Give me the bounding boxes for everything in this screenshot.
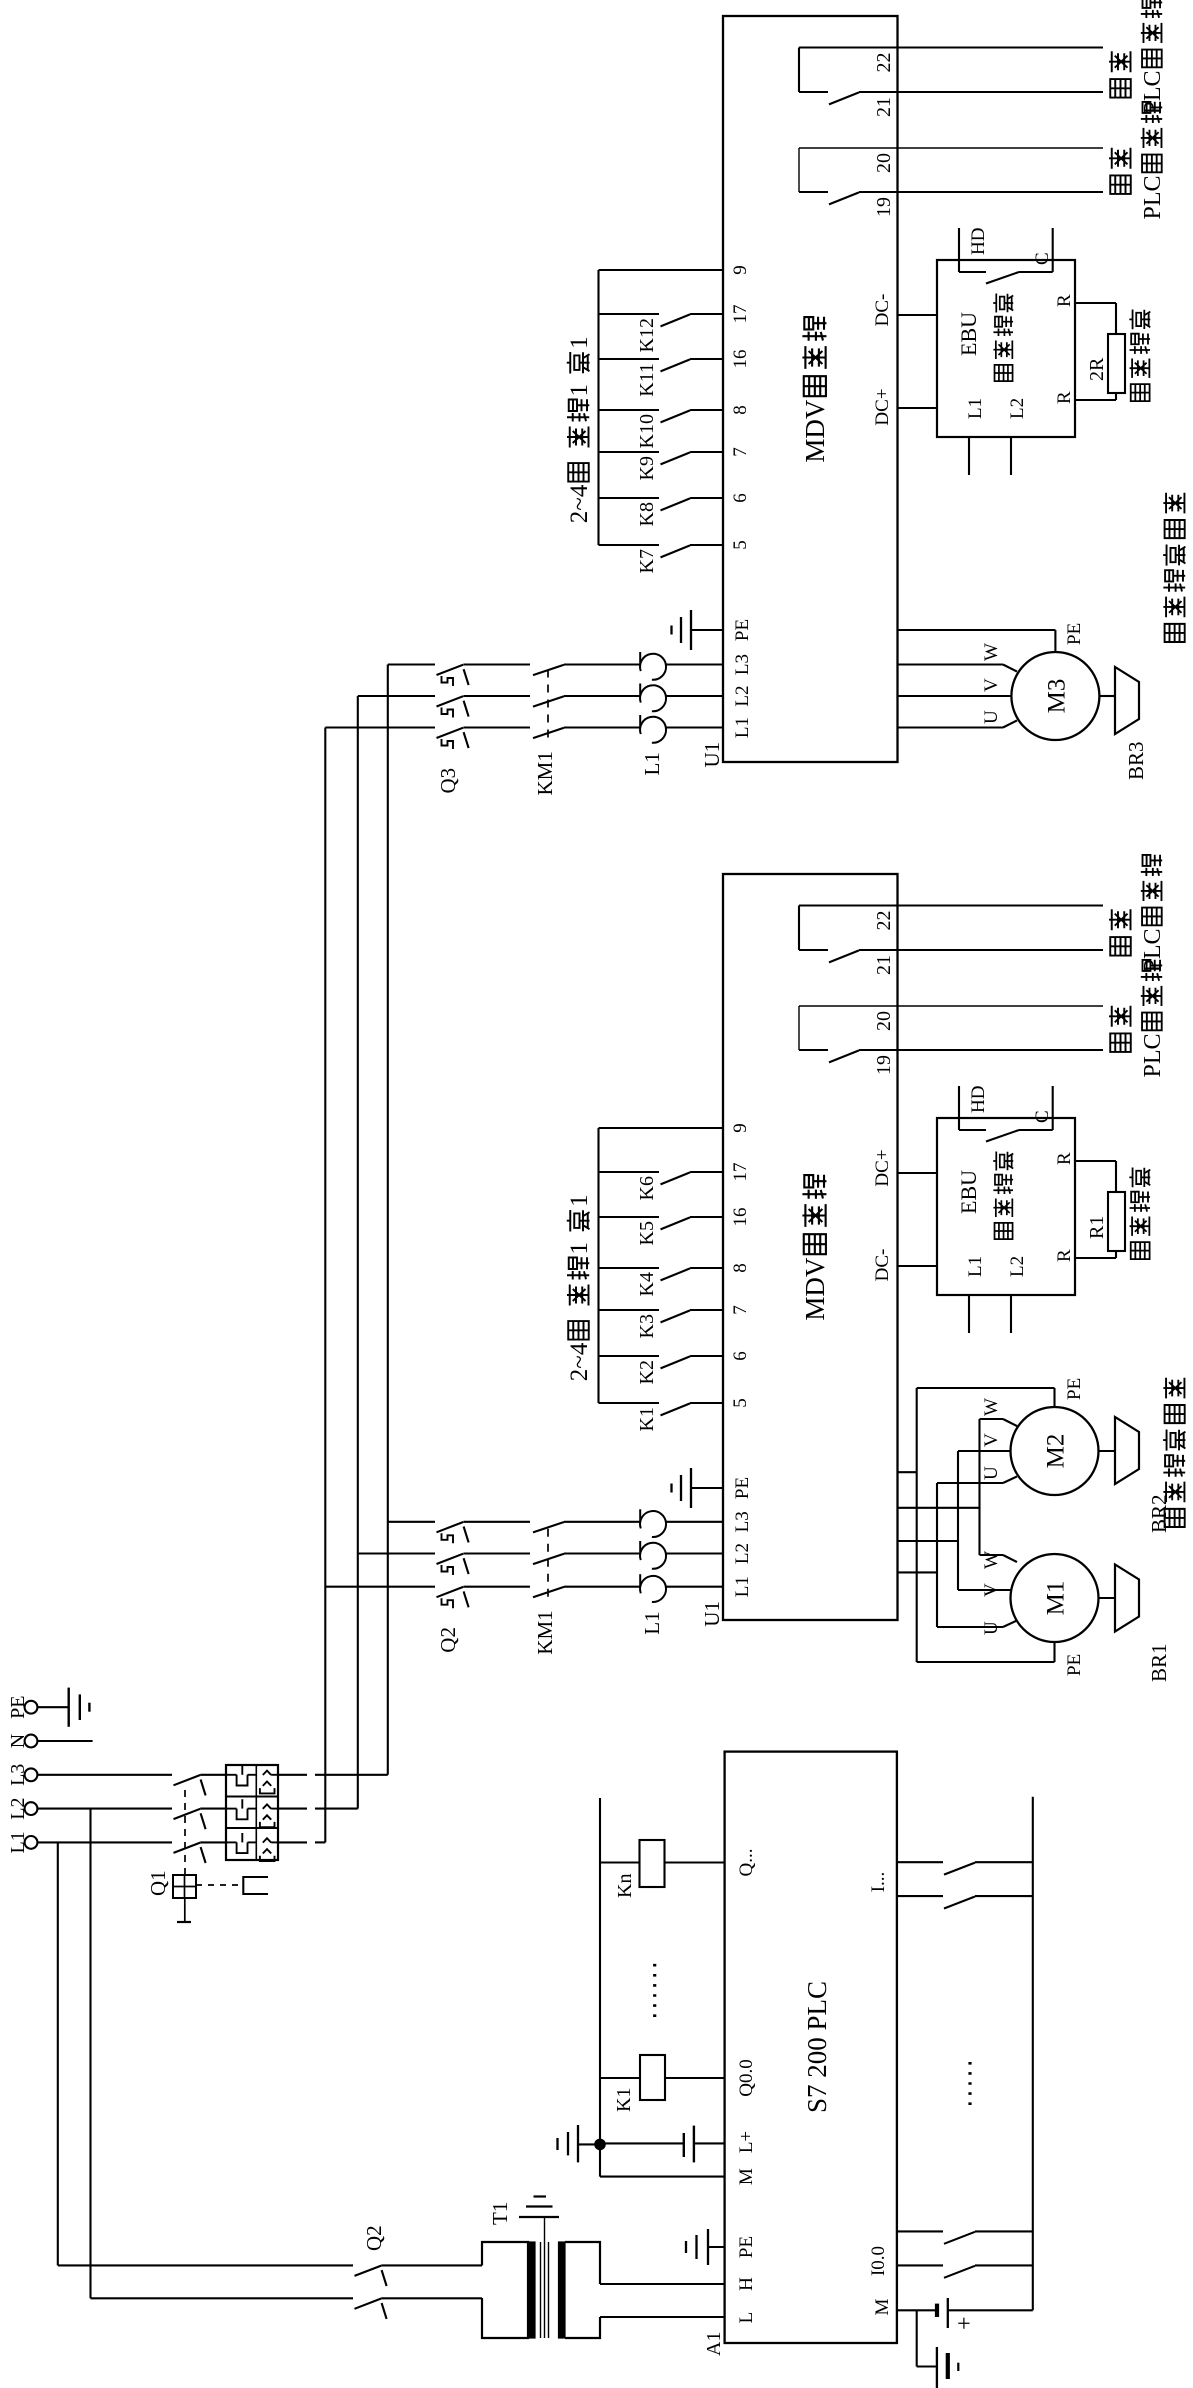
- svg-text:Q0.0: Q0.0: [736, 2059, 757, 2096]
- contactor KM1 linkage dashed 1626: [547, 670, 549, 738]
- wire L3 drop to Q1: [38, 1774, 173, 1776]
- transformer T1 primary winding: [482, 2242, 528, 2338]
- svg-text:V: V: [981, 1433, 1002, 1447]
- svg-text:5: 5: [730, 540, 751, 550]
- wire L2 control feeder to Q2: [89, 1809, 91, 2299]
- svg-text:PE: PE: [732, 1477, 753, 1499]
- wire L3 from Q1 to bus: [278, 1774, 307, 1776]
- svg-text:L: L: [736, 2312, 757, 2324]
- label fault PLC input point: [1110, 175, 1131, 194]
- svg-text:L1: L1: [640, 752, 664, 775]
- svg-text:L3: L3: [7, 1764, 29, 1786]
- svg-text:L1: L1: [7, 1831, 29, 1853]
- wire terminal 20: [799, 147, 1103, 149]
- breaker Q1 pole L3: [174, 1775, 201, 1785]
- EBU C terminal: [1052, 228, 1054, 272]
- EBU C terminal: [1052, 1086, 1054, 1130]
- svg-text:1: 1: [566, 384, 593, 397]
- contactor KM1 pole L2 at x=834: [533, 1554, 564, 1564]
- EBU braking unit box 768: [937, 1118, 1075, 1295]
- breaker Q2 pole L1 at x=801: [437, 1587, 464, 1597]
- contactor KM1 pole L1 at x=1660: [533, 728, 564, 738]
- svg-text:U: U: [981, 710, 1002, 724]
- breaker Q1 trip linkage dashed: [184, 1784, 186, 1875]
- svg-text:U: U: [981, 1466, 1002, 1480]
- svg-text:7: 7: [730, 447, 751, 457]
- breaker Q2 control pole B: [355, 2299, 382, 2309]
- svg-text:L2: L2: [1007, 1256, 1028, 1277]
- svg-text:S7 200 PLC: S7 200 PLC: [802, 1981, 832, 2113]
- svg-text:I...: I...: [868, 1872, 889, 1893]
- contact K8 terminal 6: [599, 497, 660, 499]
- node N mains terminal: [25, 1735, 38, 1748]
- label fault PLC input point: [1110, 1033, 1131, 1052]
- svg-text:PE: PE: [732, 619, 753, 641]
- ground at coil rail junction: [578, 2143, 600, 2145]
- wire terminal 19 with contact: [799, 191, 828, 193]
- brake BR1: [1115, 1565, 1139, 1632]
- inverter box MDV at x=768: [723, 874, 898, 1620]
- svg-text:A1: A1: [703, 2332, 725, 2356]
- svg-text:M1: M1: [1043, 1581, 1070, 1616]
- inverter relay 21-22 link: [798, 48, 800, 93]
- reactor L1 phase L3 at x=866: [640, 1511, 666, 1537]
- inverter relay 21-22 link: [798, 906, 800, 951]
- label brake PLC input point: [1110, 937, 1131, 956]
- wire L1 drop into inverter 768: [325, 1586, 435, 1588]
- Q1 magnetic element phase at x=579: [263, 1804, 271, 1808]
- svg-text:M3: M3: [1043, 679, 1070, 714]
- svg-text:K7: K7: [636, 549, 658, 573]
- EBU L2 stub: [1010, 1295, 1012, 1333]
- wire L1 control feeder to Q2: [57, 1842, 59, 2265]
- ground PLC PE earth: [707, 2229, 709, 2265]
- svg-text:PE: PE: [1064, 1378, 1085, 1400]
- svg-text:PE: PE: [736, 2236, 757, 2258]
- wire V to M2: [958, 1450, 1011, 1452]
- svg-text:T1: T1: [488, 2202, 512, 2225]
- svg-text:DC+: DC+: [872, 388, 893, 425]
- wire PLC L+ with capacitor: [695, 2142, 725, 2144]
- contact K10 terminal 8: [599, 409, 660, 411]
- svg-text:R: R: [1054, 1249, 1075, 1262]
- inverter relay 19-20 link: [798, 148, 800, 192]
- reactor L1 phase L1 at x=1660: [640, 717, 666, 743]
- wire M2 to BR2: [1099, 1450, 1116, 1452]
- wire L2 drop into inverter 768: [358, 1552, 435, 1554]
- wire M3 to BR3: [1099, 695, 1115, 697]
- svg-text:2~4: 2~4: [566, 484, 593, 523]
- contactor KM1 pole L1 at x=801: [533, 1587, 564, 1597]
- svg-text:Q2: Q2: [362, 2225, 386, 2251]
- wire DC- to EBU: [898, 1265, 938, 1267]
- svg-text:R: R: [1054, 391, 1075, 404]
- svg-text:1: 1: [566, 336, 593, 349]
- svg-text:W: W: [981, 1551, 1002, 1569]
- svg-text:MDV: MDV: [800, 399, 830, 463]
- contact K7 terminal 5: [599, 544, 660, 546]
- wire U to M1: [937, 1626, 1003, 1628]
- Q1 magnetic element phase at x=613: [263, 1771, 271, 1775]
- svg-text:U1: U1: [700, 1601, 724, 1627]
- svg-text:N: N: [7, 1734, 29, 1748]
- svg-text:W: W: [981, 1398, 1002, 1416]
- wire K-bank common rail 768: [597, 1128, 599, 1403]
- breaker Q1 manual operator: [184, 1898, 186, 1922]
- Q1 thermal element phase at x=579: [226, 1808, 237, 1810]
- wire V output to motor rail: [898, 1540, 959, 1542]
- contact K12 terminal 17: [599, 313, 660, 315]
- svg-text:KM1: KM1: [533, 751, 557, 795]
- wire K-bank common rail 1626: [597, 270, 599, 545]
- battery negative plates: [936, 2347, 938, 2388]
- breaker Q1 thermal-magnetic box: [226, 1765, 278, 1860]
- svg-text:6: 6: [730, 1351, 751, 1361]
- wire bus L2: [357, 696, 359, 1809]
- svg-text:K12: K12: [636, 318, 658, 352]
- svg-text:Q1: Q1: [146, 1870, 170, 1896]
- Q1 thermal element phase at x=546: [226, 1841, 237, 1843]
- svg-text:R1: R1: [1086, 1216, 1108, 1239]
- transformer T1 core earth: [519, 2216, 559, 2218]
- svg-text:L2: L2: [7, 1797, 29, 1819]
- svg-text:1: 1: [566, 1242, 593, 1255]
- PLC S7-200 box: [725, 1752, 897, 2343]
- wire L2 from Q1 to bus: [278, 1808, 307, 1810]
- contact K11 terminal 16: [599, 358, 660, 360]
- node PE mains terminal: [25, 1701, 38, 1714]
- svg-text:17: 17: [730, 1163, 751, 1182]
- breaker Q1 actuator box: [173, 1875, 196, 1898]
- contactor KM1 linkage dashed 768: [547, 1527, 549, 1597]
- contactor KM1 pole L3 at x=1724: [533, 665, 564, 675]
- wire terminal 22: [799, 46, 1103, 48]
- svg-text:21: 21: [873, 97, 895, 117]
- Q1 magnetic element phase at x=546: [263, 1838, 271, 1842]
- svg-text:L2: L2: [1007, 398, 1028, 419]
- ground PE earth symbol: [38, 1706, 69, 1708]
- svg-text:U1: U1: [700, 742, 724, 768]
- PLC input I0.0 contact pair: [897, 2230, 943, 2232]
- wire W output to M3: [898, 663, 1004, 665]
- reactor L1 phase L1 at x=801: [640, 1576, 666, 1602]
- svg-text:5: 5: [730, 1398, 751, 1408]
- EBU internal contact: [959, 1129, 986, 1131]
- contact K5 terminal 16: [599, 1216, 660, 1218]
- svg-text:C: C: [1032, 1110, 1053, 1123]
- wire L1 drop to Q1: [38, 1841, 173, 1843]
- wire terminal 9: [599, 269, 724, 271]
- svg-text:PE: PE: [1064, 1654, 1085, 1676]
- svg-text:8: 8: [730, 405, 751, 415]
- wire U output to M3: [898, 726, 1004, 728]
- EBU L2 stub: [1010, 437, 1012, 475]
- svg-text:Q2: Q2: [436, 1627, 460, 1653]
- label gantry travel drive top: [1165, 624, 1185, 642]
- svg-text:K2: K2: [636, 1360, 658, 1384]
- svg-text:HD: HD: [968, 228, 989, 255]
- svg-text:L1: L1: [732, 1576, 753, 1597]
- svg-text:19: 19: [873, 1055, 895, 1075]
- svg-text:R: R: [1054, 294, 1075, 307]
- wire PE motor rail: [916, 1388, 918, 1662]
- svg-text:L3: L3: [732, 1511, 753, 1532]
- svg-text:BR3: BR3: [1124, 741, 1148, 780]
- wire PLC M to battery: [897, 2309, 937, 2311]
- braking resistor chinese label: [1131, 384, 1150, 401]
- svg-text:K9: K9: [636, 456, 658, 480]
- contact K1 terminal 5: [599, 1402, 660, 1404]
- wire V to M1: [958, 1589, 1011, 1591]
- svg-text:21: 21: [873, 955, 895, 975]
- brake BR3: [1115, 667, 1139, 734]
- wire L3 drop into inverter 1626: [388, 663, 435, 665]
- reactor L1 phase L2 at x=1692: [640, 685, 666, 711]
- wire L3 drop into inverter 768: [388, 1521, 435, 1523]
- wire DC+ to EBU: [898, 407, 938, 409]
- breaker Q2 pole L2 at x=834: [437, 1554, 464, 1564]
- svg-text:M: M: [736, 2168, 757, 2185]
- transformer T1 secondary winding: [559, 2242, 566, 2338]
- EBU internal contact: [959, 271, 986, 273]
- node L1 mains terminal: [25, 1836, 38, 1849]
- svg-text:EBU: EBU: [956, 312, 981, 356]
- braking resistor chinese label: [1131, 1242, 1150, 1259]
- wire EBU to braking resistor right: [1075, 1160, 1116, 1162]
- wire input common rail: [1032, 1797, 1034, 2311]
- svg-text:L2: L2: [732, 685, 753, 706]
- svg-text:Q3: Q3: [436, 768, 460, 794]
- battery 24V: [935, 2304, 939, 2317]
- svg-text:16: 16: [730, 350, 751, 369]
- svg-text:EBU: EBU: [956, 1170, 981, 1214]
- svg-text:V: V: [981, 678, 1002, 692]
- svg-text:L2: L2: [732, 1543, 753, 1564]
- svg-text:17: 17: [730, 305, 751, 324]
- wire V output to M3: [898, 695, 1012, 697]
- wire DC+ to EBU: [898, 1172, 938, 1174]
- wire terminal 21 with contact: [799, 91, 828, 93]
- node junction dot on coil rail: [595, 2139, 606, 2150]
- label brake PLC input point: [1110, 79, 1131, 98]
- inverter box MDV at x=1626: [723, 16, 898, 762]
- svg-text:DC+: DC+: [872, 1149, 893, 1186]
- svg-text:PE: PE: [1064, 623, 1085, 645]
- svg-text:2R: 2R: [1086, 357, 1108, 381]
- PLC PE wire: [708, 2246, 725, 2248]
- svg-text:K4: K4: [636, 1272, 658, 1296]
- relay coil K1: [665, 2077, 725, 2079]
- contactor KM1 pole L2 at x=1692: [533, 696, 564, 706]
- contact K4 terminal 8: [599, 1267, 660, 1269]
- node L2 mains terminal: [25, 1802, 38, 1815]
- wire terminal 22: [799, 904, 1103, 906]
- EBU L1 stub: [968, 1295, 970, 1333]
- breaker Q3 pole L1 at x=1660: [437, 728, 464, 738]
- relay coil Kn: [664, 1861, 724, 1863]
- motor M1: [1011, 1554, 1099, 1642]
- wire L2 drop to Q1: [38, 1808, 173, 1810]
- svg-text:K3: K3: [636, 1314, 658, 1338]
- reactor L1 phase L3 at x=1724: [640, 654, 666, 680]
- svg-text:MDV: MDV: [800, 1257, 830, 1321]
- resistor R1 braking: [1108, 1192, 1125, 1251]
- svg-text:7: 7: [730, 1305, 751, 1315]
- wire PLC M to rail: [600, 2176, 725, 2178]
- wire W motor rail: [978, 1419, 980, 1555]
- wire W output to motor rail: [898, 1507, 980, 1509]
- ground inverter PE input 1626: [691, 629, 723, 631]
- svg-text:K11: K11: [636, 363, 658, 397]
- svg-text:L+: L+: [736, 2131, 757, 2153]
- wire branch to battery negative: [916, 2310, 918, 2366]
- wire terminal 9: [599, 1127, 724, 1129]
- svg-text:L1: L1: [640, 1611, 664, 1634]
- svg-text:K10: K10: [636, 414, 658, 448]
- contact K9 terminal 7: [599, 451, 660, 453]
- svg-text:+: +: [952, 2316, 978, 2330]
- svg-text:16: 16: [730, 1208, 751, 1227]
- svg-text:DC-: DC-: [872, 294, 893, 327]
- svg-text:R: R: [1054, 1152, 1075, 1165]
- breaker Q1 pole L1: [174, 1843, 201, 1853]
- transformer T1 core: [540, 2242, 542, 2338]
- wire T1 secondary to PLC L: [600, 2316, 725, 2318]
- svg-text:DC-: DC-: [872, 1249, 893, 1282]
- breaker Q3 pole L3 at x=1724: [437, 665, 464, 675]
- wire W to M1: [980, 1554, 1004, 1556]
- wire W to M2: [980, 1418, 1004, 1420]
- label gantry travel drive middle: [1165, 1509, 1185, 1527]
- breaker Q1 pole L2: [174, 1809, 201, 1819]
- wire M1 to BR1: [1099, 1597, 1116, 1599]
- wire L1 drop into inverter 1626: [325, 726, 435, 728]
- svg-text:U: U: [981, 1621, 1002, 1635]
- contact K6 terminal 17: [599, 1171, 660, 1173]
- svg-text:PLC: PLC: [1140, 175, 1166, 219]
- EBU braking unit chinese label: [995, 1223, 1013, 1239]
- wire bus L3: [387, 665, 389, 1775]
- svg-text:PE: PE: [7, 1696, 29, 1719]
- svg-text:K1: K1: [636, 1407, 658, 1431]
- wire bus L1: [324, 728, 326, 1843]
- EBU L1 stub: [968, 437, 970, 475]
- breaker Q3 pole L2 at x=1692: [437, 696, 464, 706]
- EBU braking unit box 1626: [937, 260, 1075, 437]
- wire terminal 19 with contact: [799, 1049, 828, 1051]
- PLC input I... contact pair: [897, 1861, 943, 1863]
- wire DC- to EBU: [898, 314, 938, 316]
- svg-text:19: 19: [873, 197, 895, 217]
- wire PE output to M3: [898, 629, 1056, 631]
- Q1 thermal element phase at x=613: [226, 1774, 237, 1776]
- resistor 2R braking: [1108, 334, 1125, 393]
- wire PE output to motor rail: [898, 1471, 917, 1473]
- svg-text:22: 22: [873, 911, 895, 931]
- wire PE to M2: [917, 1387, 1055, 1389]
- wire L1 from Q1 to bus: [278, 1841, 307, 1843]
- svg-text:L1: L1: [965, 1256, 986, 1277]
- wire N stub: [38, 1740, 93, 1742]
- breaker Q2 pole L3 at x=866: [437, 1522, 464, 1532]
- wire V motor rail: [957, 1451, 959, 1590]
- wire L2 drop into inverter 1626: [358, 695, 435, 697]
- EBU HD terminal: [958, 228, 960, 272]
- svg-text:L3: L3: [732, 654, 753, 675]
- motor M3: [1011, 652, 1099, 740]
- svg-text:20: 20: [873, 1011, 895, 1031]
- breaker Q1 operating bracket: [243, 1877, 268, 1894]
- node L3 mains terminal: [25, 1768, 38, 1781]
- svg-text:BR1: BR1: [1147, 1643, 1171, 1682]
- svg-text:HD: HD: [968, 1086, 989, 1113]
- svg-text:8: 8: [730, 1263, 751, 1273]
- wire PE to M1: [917, 1661, 1055, 1663]
- svg-text:W: W: [981, 643, 1002, 661]
- svg-text:M: M: [872, 2298, 893, 2315]
- svg-text:L1: L1: [965, 398, 986, 419]
- inverter relay 19-20 link: [798, 1006, 800, 1050]
- EBU HD terminal: [958, 1086, 960, 1130]
- svg-text:L1: L1: [732, 717, 753, 738]
- brake BR2: [1115, 1417, 1139, 1484]
- wire EBU to braking resistor right: [1075, 302, 1116, 304]
- reactor L1 phase L2 at x=834: [640, 1543, 666, 1569]
- ground inverter PE input 768: [691, 1487, 723, 1489]
- contactor KM1 pole L3 at x=866: [533, 1522, 564, 1532]
- svg-text:Kn: Kn: [614, 1874, 636, 1898]
- svg-text:22: 22: [873, 53, 895, 73]
- dotted continuation between K1 and Kn: [653, 1961, 656, 2017]
- svg-text:Q...: Q...: [736, 1849, 757, 1877]
- svg-text:1: 1: [566, 1194, 593, 1207]
- svg-text:I0.0: I0.0: [868, 2246, 889, 2276]
- wire EBU to braking resistor left: [1075, 1257, 1116, 1259]
- wire terminal 20: [799, 1005, 1103, 1007]
- svg-text:KM1: KM1: [533, 1610, 557, 1654]
- motor M2: [1011, 1407, 1099, 1495]
- svg-text:H: H: [736, 2277, 757, 2291]
- svg-text:6: 6: [730, 493, 751, 503]
- contact K2 terminal 6: [599, 1355, 660, 1357]
- svg-text:K8: K8: [636, 502, 658, 526]
- breaker Q2 control pole A: [355, 2266, 382, 2276]
- wire U motor rail: [936, 1483, 938, 1627]
- contact K3 terminal 7: [599, 1309, 660, 1311]
- svg-text:2~4: 2~4: [566, 1342, 593, 1381]
- svg-text:9: 9: [730, 265, 751, 275]
- wire EBU to braking resistor left: [1075, 399, 1116, 401]
- wire terminal 21 with contact: [799, 949, 828, 951]
- svg-text:K6: K6: [636, 1176, 658, 1200]
- svg-text:PLC: PLC: [1140, 1033, 1166, 1077]
- wire coil rail: [599, 1798, 601, 2177]
- svg-text:C: C: [1032, 252, 1053, 265]
- wire U output to motor rail: [898, 1571, 938, 1573]
- svg-text:M2: M2: [1043, 1434, 1070, 1469]
- svg-text:K1: K1: [613, 2088, 635, 2112]
- svg-text:K5: K5: [636, 1221, 658, 1245]
- wire T1 secondary to PLC H: [600, 2283, 725, 2285]
- EBU braking unit chinese label: [995, 365, 1013, 381]
- breaker Q1 mechanism dashes: [196, 1884, 241, 1886]
- dotted continuation between inputs: [968, 2060, 971, 2105]
- svg-text:V: V: [981, 1583, 1002, 1597]
- svg-text:20: 20: [873, 153, 895, 173]
- svg-text:9: 9: [730, 1123, 751, 1133]
- wire U to M2: [937, 1482, 1003, 1484]
